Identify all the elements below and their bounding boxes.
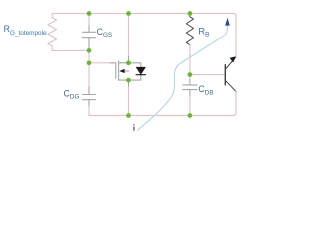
wire base net: [190, 74, 225, 76]
wire top rail: [52, 14, 236, 18]
node dot top drain: [126, 11, 131, 16]
node dot base junction: [188, 72, 193, 77]
capacitor C_DB top pin: [189, 80, 191, 85]
node dot bottom C_DB: [188, 113, 193, 118]
current annotation curve: [138, 25, 228, 130]
wire source to diode: [129, 75, 141, 80]
transistor Q1 emitter diagonal: [225, 57, 236, 69]
transistor M1 drain pin: [128, 57, 130, 63]
current arrowhead: [225, 18, 230, 26]
bulk arrow of M1: [119, 69, 124, 73]
wire drain to diode: [129, 63, 141, 67]
node dot resistor tap: [87, 48, 92, 53]
resistor R_G_totempole: [48, 18, 57, 51]
wire C_DB top lead: [189, 75, 191, 80]
wire R_B bottom to base node: [189, 45, 191, 75]
node dot bottom source: [126, 113, 131, 118]
wire source net: [128, 80, 130, 86]
node dot drain junction: [126, 60, 131, 65]
node dot top C_GS: [87, 11, 92, 16]
wire C_GS bottom through taps: [88, 50, 90, 87]
node dot gate tap: [87, 60, 92, 65]
wire gate net: [89, 62, 110, 64]
resistor R_B: [186, 14, 193, 45]
transistor Q1 npn base bar: [224, 65, 226, 85]
wire emitter to top rail: [235, 16, 237, 57]
node dot top R_B: [188, 11, 193, 16]
transistor Q1 emitter arrowhead: [230, 56, 236, 62]
wire left branch upper: [88, 14, 90, 27]
node dot source junction: [126, 78, 131, 83]
body diode D1: [136, 67, 145, 75]
wire C_DB bottom to bottom rail: [189, 96, 191, 116]
transistor M1 nmos gate: [110, 61, 129, 80]
transistor Q1 collector diagonal: [225, 80, 236, 91]
wire bottom rail: [89, 115, 234, 117]
capacitor C_DG: [83, 87, 96, 106]
capacitor C_DB: [183, 85, 197, 96]
wire C_DG bottom to bottom rail: [88, 106, 90, 116]
wire drain net: [128, 14, 130, 57]
wire collector to bottom rail: [234, 91, 236, 115]
wire source net lower: [128, 87, 130, 116]
label i current: [133, 124, 134, 130]
capacitor C_GS: [83, 26, 96, 50]
wire resistor bottom to C_GS branch: [52, 49, 89, 51]
